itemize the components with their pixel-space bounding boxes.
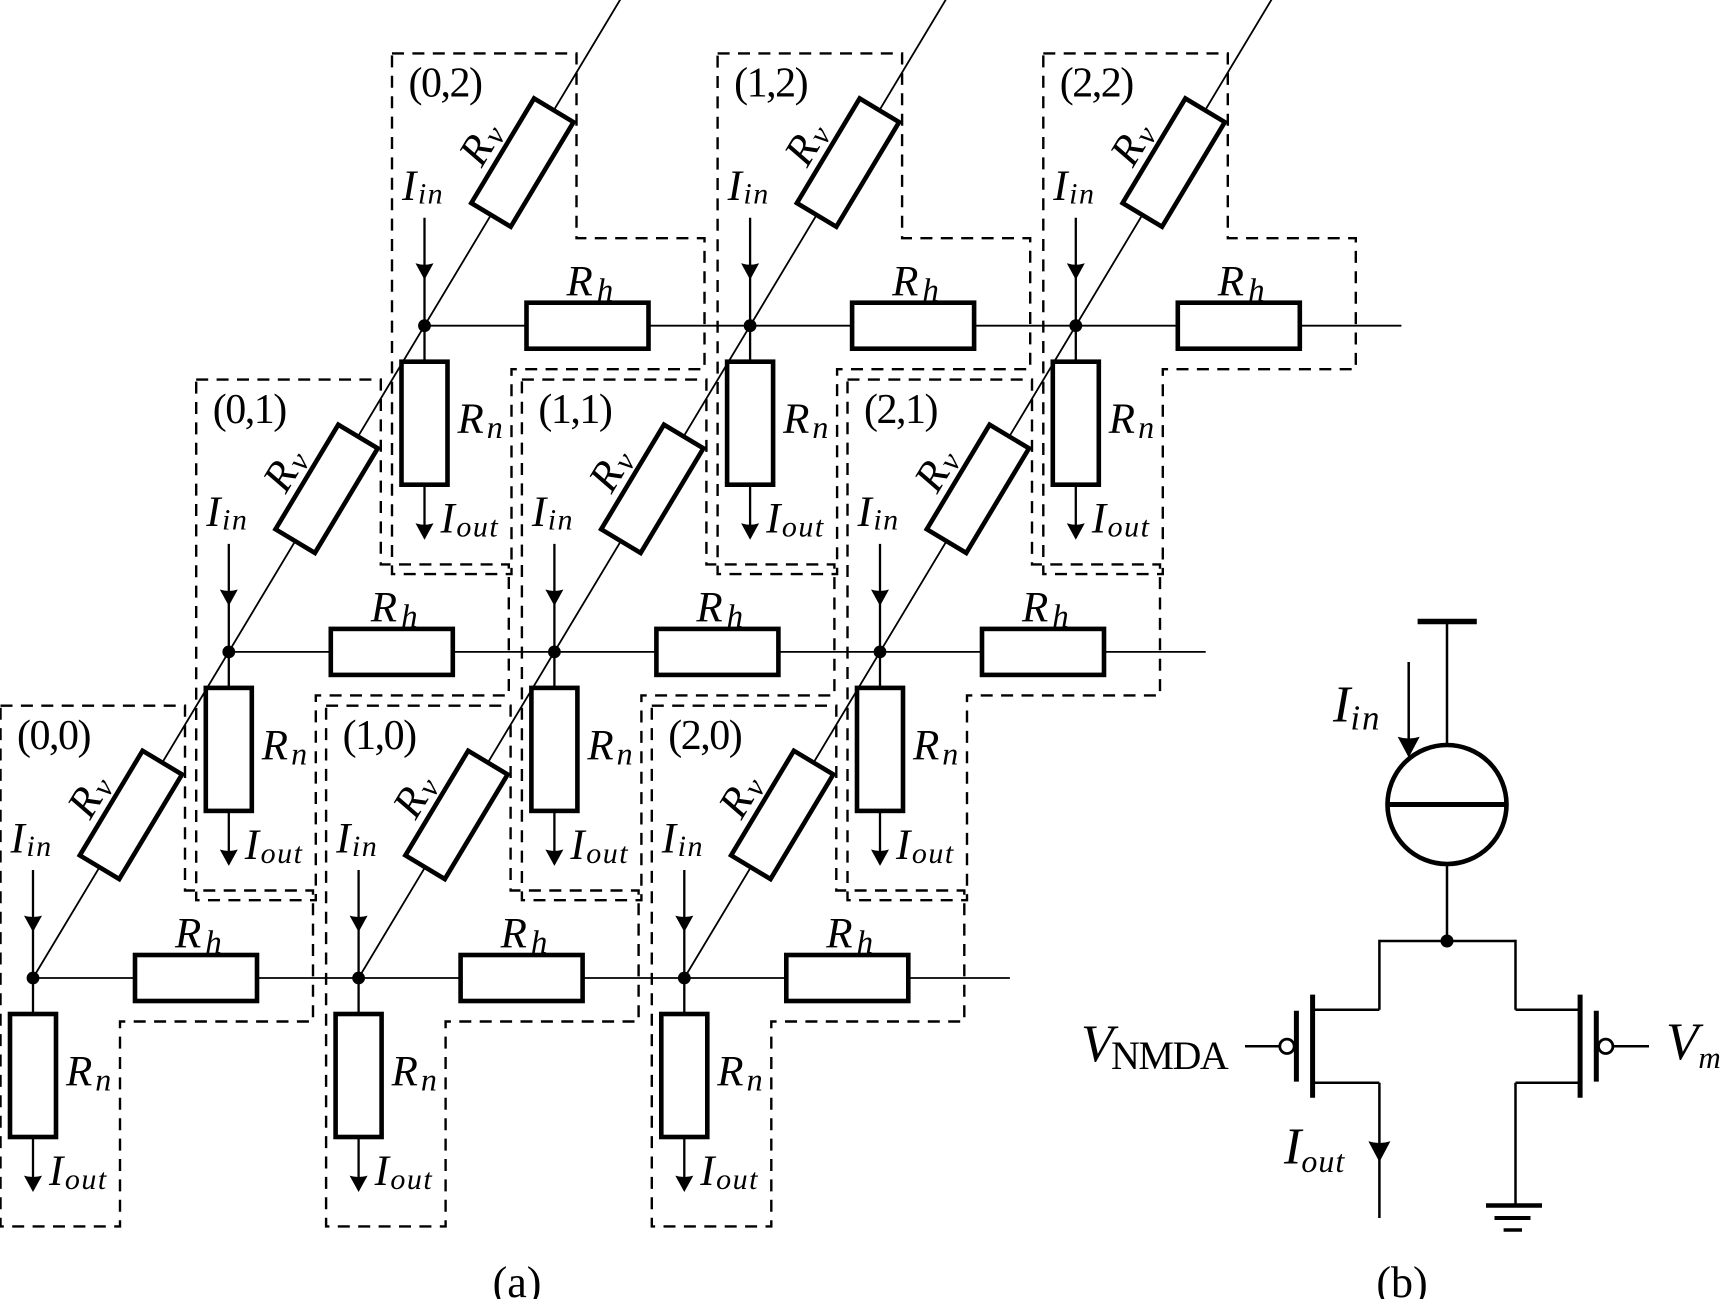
svg-text:(0,1): (0,1)	[213, 387, 286, 433]
svg-text:(1,0): (1,0)	[343, 713, 416, 759]
svg-text:(0,2): (0,2)	[409, 61, 482, 107]
svg-text:(1,2): (1,2)	[734, 61, 807, 107]
svg-text:(2,0): (2,0)	[668, 713, 741, 759]
svg-text:(2,2): (2,2)	[1060, 61, 1133, 107]
svg-text:NMDA: NMDA	[1111, 1033, 1229, 1078]
svg-text:(b): (b)	[1376, 1258, 1427, 1299]
svg-text:(2,1): (2,1)	[864, 387, 937, 433]
svg-text:(a): (a)	[493, 1258, 542, 1299]
svg-text:(1,1): (1,1)	[538, 387, 611, 433]
svg-text:(0,0): (0,0)	[17, 713, 90, 759]
